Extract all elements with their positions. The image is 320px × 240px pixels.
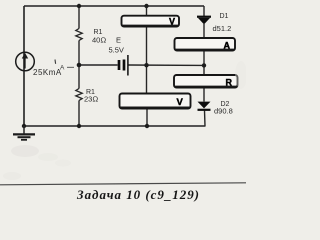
svg-text:40Ω: 40Ω — [92, 36, 106, 45]
voltmeter box V1 — [122, 16, 180, 27]
wire right branch: D2 to bottom rail — [204, 111, 207, 127]
wire right branch: top to D1 — [203, 6, 205, 16]
wire meter column x=146.5 top stub — [146, 6, 148, 16]
wire top rail — [24, 5, 204, 7]
diode D1 — [197, 16, 211, 18]
wire right branch: ammeter to R box — [203, 51, 205, 75]
svg-text:A: A — [60, 65, 65, 72]
resistor R1 40ohm zigzag — [76, 29, 82, 41]
voltmeter box V2 — [120, 94, 191, 109]
junction dot mid x146.5 — [144, 63, 148, 67]
junction dot bottom-left — [22, 124, 26, 128]
wire right branch: R box to D2 — [203, 88, 205, 102]
wire right branch: D1 to ammeter — [203, 24, 205, 38]
separator rule — [0, 183, 246, 185]
junction node A — [77, 63, 82, 68]
svg-text:D1: D1 — [220, 13, 229, 20]
svg-text:d90.8: d90.8 — [214, 107, 233, 116]
current source arrow — [24, 57, 26, 69]
svg-text:25KmA: 25KmA — [33, 68, 62, 77]
resistor box R — [174, 75, 238, 88]
wire middle vertical between R1 and node A — [78, 41, 80, 89]
svg-text:Задача 10 (с9_129): Задача 10 (с9_129) — [76, 187, 199, 202]
svg-text:5.5V: 5.5V — [109, 46, 124, 55]
diode D2 — [198, 102, 211, 109]
ground — [23, 126, 25, 134]
wire meter column x=146.5 middle — [146, 27, 148, 94]
svg-text:V: V — [169, 17, 175, 27]
junction dot bottom x79 — [77, 124, 81, 128]
svg-text:d51.2: d51.2 — [213, 24, 232, 33]
wire mid horizontal right of battery E — [129, 64, 205, 66]
wire mid horizontal left of battery E — [79, 64, 118, 66]
wire bottom rail — [24, 125, 206, 127]
ammeter box A1 — [175, 38, 236, 51]
svg-text:R: R — [226, 78, 233, 88]
svg-text:23Ω: 23Ω — [84, 95, 98, 104]
wire meter column x=146.5 bottom — [146, 109, 148, 126]
junction dot top x79 — [77, 4, 81, 8]
scan smudge under ground — [11, 145, 39, 157]
wire left rail — [23, 6, 25, 126]
junction dot bottom x147 — [145, 124, 149, 128]
junction dot mid x204 — [202, 63, 206, 67]
junction dot top x146.5 — [144, 4, 148, 8]
node A dash — [67, 66, 74, 68]
wire middle vertical upper (to R1) — [78, 6, 80, 29]
battery E — [118, 60, 121, 70]
svg-text:E: E — [116, 36, 121, 45]
svg-text:V: V — [177, 97, 184, 108]
wire middle vertical lower — [78, 101, 80, 127]
current source I1 circle — [16, 52, 35, 71]
tick mark above label — [54, 60, 57, 64]
resistor R2 23ohm zigzag — [76, 89, 82, 101]
svg-text:A: A — [224, 41, 231, 51]
scan mottle patches — [3, 172, 21, 180]
